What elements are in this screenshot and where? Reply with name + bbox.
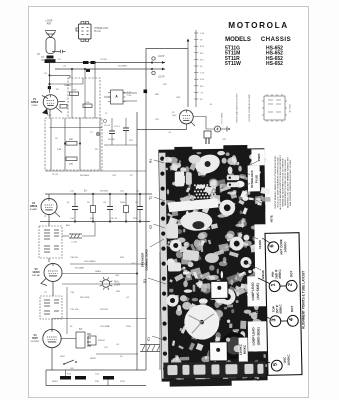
dark coil bottom right	[220, 332, 247, 359]
detector coil hatch	[69, 234, 82, 238]
svg-text:1: 1	[271, 283, 277, 286]
interlock contact tabs	[227, 175, 240, 180]
svg-text:R1: R1	[149, 159, 153, 163]
svg-text:600KC: 600KC	[243, 344, 247, 354]
svg-text:D1: D1	[143, 279, 147, 283]
mixer grid dashed box	[68, 78, 100, 118]
svg-text:VOLUME: VOLUME	[75, 268, 84, 270]
svg-text:DIAL POINTER HORIZONTAL AT GAN: DIAL POINTER HORIZONTAL AT GANG CLOSED.	[289, 159, 292, 206]
svg-text:(AVC SIDE): (AVC SIDE)	[256, 283, 260, 300]
svg-text:22K: 22K	[69, 164, 73, 166]
svg-text:LOOP LEAD: LOOP LEAD	[251, 327, 255, 346]
coupling unit / hatched blob	[47, 56, 54, 59]
svg-text:R1 1MEG: R1 1MEG	[118, 66, 128, 68]
svg-text:DOT: DOT	[289, 270, 293, 277]
svg-text:50C5: 50C5	[32, 337, 38, 340]
svg-text:C16 250: C16 250	[70, 257, 79, 259]
1st IF transformer dashed box	[39, 226, 62, 258]
B+ bus lines	[45, 193, 152, 195]
series filament resistors (black blobs)	[60, 376, 71, 380]
svg-text:8.5V: 8.5V	[200, 46, 205, 48]
black capacitor blob on wire	[83, 61, 89, 64]
loop antenna E1	[45, 31, 56, 38]
svg-text:150V: 150V	[126, 326, 131, 328]
L-branch wires into mixer box	[50, 75, 71, 78]
tuning capacitor big circle	[184, 304, 219, 339]
perforated dot grid	[194, 184, 196, 186]
alignment callout box	[265, 233, 302, 376]
two capacitors	[175, 171, 185, 186]
svg-text:C2 220: C2 220	[100, 59, 108, 61]
circles 1,2	[269, 281, 280, 292]
svg-text:5T11W: 5T11W	[225, 61, 241, 67]
svg-text:1.2V: 1.2V	[200, 73, 205, 75]
svg-text:12BA6: 12BA6	[30, 205, 38, 208]
svg-text:R15 470K: R15 470K	[80, 297, 90, 299]
pilot lamp	[102, 280, 110, 288]
svg-text:1.4V: 1.4V	[200, 33, 205, 35]
svg-text:R8 470K: R8 470K	[100, 191, 109, 193]
svg-text:C20 40MF: C20 40MF	[100, 326, 110, 328]
long white diagonal bar	[168, 198, 219, 212]
svg-text:SOCKET VOLTAGES SHOWN: SOCKET VOLTAGES SHOWN	[248, 94, 251, 122]
svg-text:C2: C2	[149, 225, 153, 229]
svg-text:PARTS AND SERVICE NOTES: PARTS AND SERVICE NOTES	[236, 93, 239, 123]
svg-text:35W4: 35W4	[52, 381, 58, 383]
svg-text:50C5: 50C5	[263, 204, 267, 212]
svg-text:ALIGNMENT POINTS & TUBE LAYOUT: ALIGNMENT POINTS & TUBE LAYOUT	[302, 271, 306, 329]
svg-text:LOOP LEAD: LOOP LEAD	[251, 282, 255, 301]
speaker voice-coil hatched symbol	[140, 345, 160, 352]
chassis photo (parts layout halftone)	[158, 145, 273, 385]
svg-text:B+ 105V: B+ 105V	[290, 103, 292, 112]
voltage ladder	[195, 30, 197, 107]
AC plug	[204, 131, 211, 138]
1300KC 600KC label	[239, 337, 248, 361]
svg-text:CONNECTORS: CONNECTORS	[145, 249, 149, 270]
svg-text:SPKR: SPKR	[90, 358, 96, 360]
tube sockets lower	[219, 289, 235, 305]
svg-text:C1: C1	[147, 337, 151, 341]
svg-text:C24 .1: C24 .1	[114, 126, 121, 128]
svg-text:R17 220: R17 220	[100, 309, 109, 311]
long horizontal wire under osc box	[45, 170, 146, 172]
electrolytic can left	[166, 223, 178, 238]
grid cap resistor	[60, 105, 67, 109]
svg-text:220K: 220K	[120, 202, 125, 204]
svg-text:10MEG: 10MEG	[64, 85, 71, 87]
svg-text:12BE6: 12BE6	[31, 101, 39, 104]
svg-text:12BA6: 12BA6	[261, 270, 265, 280]
svg-text:470K: 470K	[72, 90, 77, 92]
big white ellipse (speaker/IF can)	[180, 211, 212, 230]
loop lead (AVC side) label	[247, 276, 266, 306]
svg-text:OSC: OSC	[176, 97, 181, 99]
tube socket diagram dashed	[264, 96, 285, 120]
svg-text:455KC: 455KC	[278, 269, 282, 279]
loop lead (GRID side) label	[248, 321, 267, 351]
big tube blob top	[193, 151, 222, 176]
svg-text:(GRID SIDE): (GRID SIDE)	[256, 327, 260, 345]
tube V1 12BE6 converter	[43, 95, 58, 110]
long vertical wires to photo area	[136, 112, 138, 171]
svg-text:HS-652: HS-652	[266, 61, 283, 67]
coil A link wires	[123, 92, 137, 94]
white label box B	[210, 342, 228, 361]
power plug/interlock symbol top	[79, 24, 92, 39]
circles 3,4	[270, 316, 281, 327]
oscillator coil dashed box	[45, 118, 102, 170]
svg-text:CONV: CONV	[31, 105, 38, 107]
V1 pin stubs	[58, 101, 65, 103]
phono jack	[193, 117, 214, 130]
svg-text:C8 .05: C8 .05	[104, 125, 111, 127]
svg-text:T/50: T/50	[127, 95, 132, 97]
svg-text:2.2K: 2.2K	[85, 102, 90, 104]
antenna coil L1	[46, 38, 55, 54]
svg-text:C15 .01: C15 .01	[110, 218, 118, 220]
mid-band extra components	[109, 131, 115, 134]
white cutouts on right edge for labels	[248, 165, 260, 191]
circle 5 osc	[271, 360, 282, 371]
svg-text:C9 .02: C9 .02	[52, 174, 59, 176]
svg-text:1MEG: 1MEG	[95, 271, 101, 273]
svg-text:DET-AF: DET-AF	[32, 274, 40, 277]
svg-text:AVC: AVC	[66, 224, 71, 227]
output transformer T2	[76, 332, 85, 348]
tube V4 50C5 output	[43, 329, 61, 347]
svg-text:DOT: DOT	[290, 305, 294, 312]
volume control dashed box	[40, 296, 62, 319]
svg-text:2: 2	[288, 283, 294, 286]
svg-text:VC: VC	[120, 356, 123, 358]
svg-text:455KC: 455KC	[278, 304, 282, 314]
svg-text:OSC: OSC	[47, 115, 52, 117]
chassis screw mark	[96, 132, 99, 135]
main vertical wire from antenna to V1	[49, 62, 51, 93]
svg-text:5: 5	[273, 363, 279, 366]
svg-text:PLUG: PLUG	[94, 30, 101, 33]
small black blob on left vertical	[144, 90, 148, 94]
svg-text:T1: T1	[149, 196, 153, 200]
antenna coil top stub w/ cap	[52, 50, 66, 53]
svg-text:12AV6: 12AV6	[32, 271, 40, 274]
on/off switch	[64, 360, 74, 364]
svg-text:R4 47K: R4 47K	[108, 139, 116, 141]
svg-text:DIAL: DIAL	[114, 281, 120, 284]
svg-text:MOTOROLA: MOTOROLA	[228, 21, 288, 30]
svg-text:LOOP: LOOP	[158, 56, 165, 58]
bottom bus wires	[46, 369, 146, 371]
tube V3 12AV6 det/af	[44, 264, 62, 282]
mid white shapes	[182, 249, 199, 261]
svg-text:OUTPUT: OUTPUT	[31, 341, 41, 343]
bottom chassis strip	[163, 361, 265, 378]
svg-text:B-: B-	[210, 104, 212, 106]
svg-text:22K: 22K	[163, 84, 167, 86]
big B+ rectangle loop wire	[146, 49, 188, 152]
tube socket rings upper	[219, 200, 235, 216]
wire under V1 to osc box	[50, 127, 103, 129]
coil A component	[111, 90, 124, 104]
R inside osc box	[66, 142, 77, 146]
tube V2b osc section circle top-right	[179, 110, 193, 124]
svg-text:R13 10MEG: R13 10MEG	[84, 261, 96, 263]
svg-text:EXT SPKR: EXT SPKR	[222, 112, 224, 123]
tube V2 12BA6 IF	[41, 199, 57, 215]
components between buses	[74, 194, 76, 206]
V1 cathode blob	[42, 109, 48, 115]
svg-text:INTERLOCK: INTERLOCK	[250, 169, 254, 187]
svg-text:R18 1K: R18 1K	[98, 340, 106, 342]
horizontal wires antenna to loop terminals	[50, 62, 153, 64]
svg-text:35W4: 35W4	[257, 153, 261, 161]
svg-text:LOOP: LOOP	[158, 77, 165, 79]
stub arrow at loop top corner	[187, 41, 189, 48]
svg-text:50K: 50K	[69, 139, 73, 141]
leader lines from callouts to photo	[254, 238, 270, 363]
svg-text:R6 1MEG: R6 1MEG	[80, 175, 90, 177]
svg-text:PLUG: PLUG	[255, 174, 259, 183]
circle 6 ant core	[268, 242, 279, 253]
svg-text:C19 .005: C19 .005	[70, 309, 79, 311]
svg-text:NOTE:: NOTE:	[271, 215, 274, 223]
svg-text:1600KC: 1600KC	[287, 354, 291, 366]
svg-text:6.3V: 6.3V	[200, 79, 205, 81]
svg-text:C 12K: C 12K	[71, 242, 77, 244]
svg-text:CHASSIS: CHASSIS	[261, 37, 291, 43]
svg-text:1400KC: 1400KC	[283, 241, 287, 253]
svg-text:IF AMP: IF AMP	[30, 208, 38, 211]
horizontal links lower-left	[70, 263, 146, 265]
svg-text:3: 3	[271, 318, 277, 321]
svg-text:MODELS: MODELS	[225, 37, 251, 43]
white label box A (12AV6 pointer)	[211, 281, 228, 298]
svg-text:ANT: ANT	[47, 22, 52, 25]
svg-text:12AV6: 12AV6	[258, 240, 262, 249]
svg-text:6: 6	[269, 244, 275, 247]
svg-text:OSC: OSC	[172, 115, 177, 117]
